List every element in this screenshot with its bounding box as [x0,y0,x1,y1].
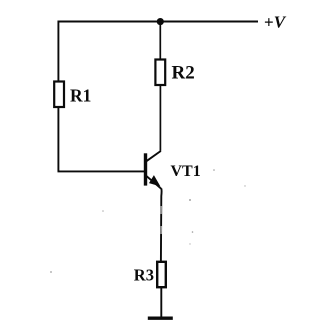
transistor VT1 [146,151,162,189]
scan specks (noise) [50,169,246,273]
emitter diagonal [146,176,161,189]
wire left branch upper segment [57,21,59,82]
ground [148,317,173,320]
wire top rail from left corner to +V [58,21,259,23]
node junction dot on top rail [157,18,164,25]
svg-text:R2: R2 [172,63,195,84]
label R3 [134,266,154,285]
net +V label [264,13,287,32]
wire from R2 to collector [159,85,161,151]
label R2 [172,63,195,84]
wire emitter to R3 [160,189,163,262]
resistor R3 [157,262,166,287]
svg-text:VT1: VT1 [171,163,201,180]
svg-text:R1: R1 [70,86,91,106]
label VT1 [171,163,201,180]
resistor R1 [54,82,64,108]
wire left branch lower segment [57,107,59,172]
wire base lead horizontal [58,170,145,172]
svg-text:+V: +V [264,13,287,32]
wire collector branch from node to R2 [159,22,161,60]
wire R3 to ground [160,287,162,317]
label R1 [70,86,91,106]
emitter arrowhead [150,176,160,186]
base bar [144,153,147,185]
resistor R2 [155,60,165,86]
svg-text:R3: R3 [134,266,154,285]
collector diagonal [146,151,161,161]
